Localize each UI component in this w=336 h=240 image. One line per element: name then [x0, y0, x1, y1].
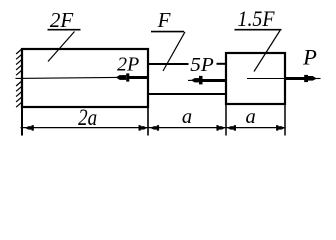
force P shaft [285, 77, 306, 80]
wall support line [21, 48, 23, 136]
dim arrow left of 2a [25, 125, 34, 130]
label 1.5F leader [254, 31, 280, 72]
svg-text:2F: 2F [50, 8, 74, 32]
force 2P shaft [129, 76, 149, 79]
force 2P axis line [16, 77, 118, 78]
svg-text:2P: 2P [117, 55, 139, 76]
label 2F underline [48, 29, 81, 31]
force 2P arrowhead [116, 75, 120, 80]
bar segment 2 (area F) top edge left part [147, 63, 189, 65]
label F underline [151, 31, 184, 33]
dim arrow right of a2 [276, 125, 285, 130]
svg-text:1.5F: 1.5F [238, 6, 275, 31]
svg-text:a: a [182, 106, 192, 128]
bar segment 2 (area F) top edge right part [217, 63, 228, 65]
label 2F leader [48, 32, 75, 62]
force P axis line [247, 78, 285, 80]
dim arrow right of 2a [139, 125, 148, 130]
svg-text:P: P [302, 44, 317, 69]
svg-text:5P: 5P [190, 54, 214, 76]
label F leader [163, 32, 185, 71]
bar segment 3 (area 1.5F) outline [226, 53, 285, 104]
wall hatching [16, 49, 22, 107]
force P tip extension [316, 78, 321, 80]
extension line at x=284.5 [284, 104, 286, 136]
force 5P shaft [202, 79, 226, 82]
force 5P tip extension [188, 79, 193, 81]
label 1.5F underline [235, 29, 282, 31]
svg-text:2a: 2a [78, 105, 97, 130]
force 5P arrowhead [191, 78, 195, 82]
dim arrow left of a2 [227, 125, 236, 130]
dimension line [21, 127, 286, 129]
force P arrowhead [304, 75, 308, 82]
svg-text:F: F [157, 8, 171, 32]
extension line at x=225.5 [225, 104, 227, 136]
bar segment 1 (area 2F) outline [22, 49, 148, 107]
bar segment 2 (area F) bottom edge [147, 93, 227, 95]
extension line at x=148 [147, 107, 149, 136]
svg-text:a: a [245, 106, 255, 128]
dim arrow left of a1 [150, 125, 159, 130]
dim arrow right of a1 [216, 125, 225, 130]
